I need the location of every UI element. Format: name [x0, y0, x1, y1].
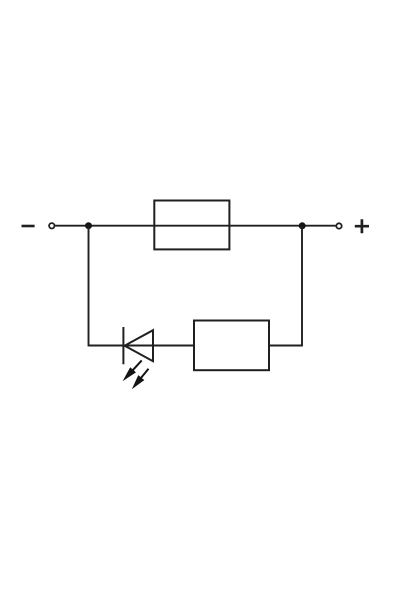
LED triangle	[125, 330, 153, 361]
LED light arrow 1	[123, 360, 142, 381]
plus polarity label	[355, 219, 369, 233]
series element box (resistor)	[194, 321, 269, 371]
LED cathode bar	[122, 327, 124, 364]
wire: main horizontal rail	[55, 225, 336, 227]
minus polarity label	[22, 225, 35, 228]
wire: lower branch right segment	[269, 345, 302, 347]
node: left junction	[85, 222, 92, 229]
right terminal (open circle)	[336, 223, 341, 228]
fuse (rectangle over rail)	[154, 201, 229, 250]
wire: left vertical drop	[88, 226, 90, 347]
node: right junction	[299, 222, 306, 229]
wire: lower branch left segment	[89, 345, 195, 347]
wire: right vertical drop	[301, 226, 303, 347]
LED light arrow 2	[132, 369, 149, 389]
left terminal (open circle)	[49, 223, 54, 228]
